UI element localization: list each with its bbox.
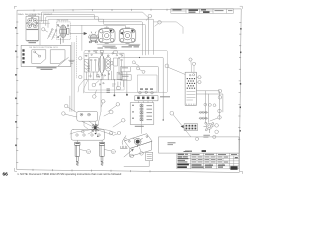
solenoid coil SOL1: [99, 53, 108, 80]
terminal circles right of coil: [114, 57, 123, 80]
wire tag 41 with leader to title area: [170, 111, 191, 137]
wire tag 55: [113, 119, 125, 128]
module tag A: [197, 76, 202, 79]
title block logo text: [177, 154, 189, 168]
wire tag 32: [93, 90, 97, 98]
V1 tag with label: [80, 150, 91, 154]
bus wire W1: [41, 12, 148, 54]
V2 tag with label: [105, 150, 116, 154]
battery B1 body: [26, 15, 38, 40]
wire switch drop left pair 2: [70, 42, 74, 111]
drop wire right of harness: [126, 72, 128, 94]
connector block CB2 dark: [184, 124, 197, 131]
control module U1 body: [185, 72, 196, 105]
module tags bottom right of body: [204, 103, 216, 106]
lamp bar LB2 lower: [71, 129, 104, 140]
fuse F2 inline: [52, 30, 57, 40]
solenoid valve V1: [75, 142, 80, 165]
harness bus horizontal: [84, 79, 127, 81]
electrical box EB outline: [21, 45, 71, 66]
drop wire mid: [113, 80, 115, 96]
zone letters right border: [239, 28, 241, 132]
arrow to connector block: [181, 125, 184, 128]
wire tag 40 with long leader: [165, 64, 185, 75]
harness top labels F row: [122, 46, 140, 47]
electrical box terminal blocks: [22, 49, 24, 63]
harness box H1 outer: [84, 51, 168, 93]
panel bolt 2: [146, 136, 148, 138]
wire tag 54: [104, 110, 113, 116]
wire connector down: [124, 161, 149, 167]
connector box CB1: [146, 152, 153, 160]
tag right 71: [210, 116, 221, 121]
splice X junction: [92, 124, 99, 131]
title block cell texts: [192, 154, 238, 163]
relay module RM1: [89, 58, 98, 72]
wire tag 31: [92, 81, 99, 87]
fan wires from connector: [70, 112, 116, 135]
wires battery to switch: [39, 21, 50, 24]
harness inner box: [89, 53, 125, 90]
lamp connector LC1: [77, 111, 98, 121]
wire tag 20: [146, 14, 151, 20]
clutch caption line: [97, 43, 140, 45]
wire battery to bus vertical: [39, 16, 41, 45]
zone ticks left border: [16, 22, 18, 162]
notes box small label: [184, 151, 190, 152]
control module pin grid: [187, 78, 195, 89]
wire tag 53: [108, 103, 120, 112]
end dot x163: [163, 119, 164, 120]
notes box dark label: [202, 150, 206, 152]
bus wire W3: [46, 17, 143, 55]
drop wire to lamp cluster: [100, 80, 102, 112]
module drop wires: [206, 91, 209, 123]
title block bottom row dark: [192, 164, 226, 167]
notes box text: [168, 142, 176, 145]
wire tag 21: [155, 21, 162, 27]
battery B1 label: [29, 42, 37, 43]
zone ticks bottom border: [33, 169, 150, 172]
pump caption text: [203, 135, 210, 138]
spring clip SP1: [120, 136, 127, 149]
tag bottom 75: [195, 137, 198, 140]
connector box pins: [140, 88, 153, 90]
module top tag circles: [189, 58, 196, 72]
fuse panel caption: [135, 126, 144, 127]
control module lower rows: [187, 92, 196, 106]
tag right 70: [218, 109, 222, 113]
fan wires harness lower-left: [78, 80, 88, 93]
solenoid valve V2: [100, 142, 105, 165]
fuse panel FP1: [130, 103, 153, 125]
revision table strip top-right: [171, 9, 234, 14]
ignition knob on panel: [133, 138, 143, 147]
panel bolt 1: [128, 140, 130, 142]
harness labels top: [98, 48, 118, 49]
harness micro detail marks: [85, 50, 124, 89]
junction dot right run: [139, 57, 140, 58]
junction square mid: [114, 95, 116, 97]
wire tag 56: [109, 132, 112, 135]
wire tag 50: [64, 104, 76, 112]
ring tag on wire lower: [218, 96, 222, 100]
bus wire W2: [44, 14, 154, 54]
module tag B: [197, 81, 202, 84]
key switch S1 dashed enclosure: [57, 22, 70, 40]
fuse block FB1 hatched: [106, 55, 111, 71]
battery B1 hatch bands: [27, 30, 38, 41]
electrical box caption: [37, 67, 57, 70]
starter motor M1: [88, 32, 98, 43]
zone letters left border: [15, 27, 16, 146]
ground G1: [58, 57, 74, 66]
fuse holder box F3: [117, 72, 122, 79]
panel tag 61: [140, 148, 144, 156]
wire tag 30: [79, 57, 82, 60]
bus stub right: [154, 22, 183, 34]
bus wire W4: [48, 19, 145, 55]
solenoid valve V1 stem: [76, 140, 78, 142]
module wire right upper: [197, 91, 220, 120]
wire tag 33: [79, 75, 82, 78]
vertical wire x163 lower: [162, 92, 164, 120]
inline connector triple 1: [199, 111, 208, 113]
arrow to starter: [70, 32, 87, 35]
clutch CL2: [119, 28, 136, 43]
solenoid valve V2 stem: [101, 140, 103, 142]
wire tag 11: [42, 28, 48, 32]
terminal strip TS1: [135, 91, 158, 101]
wire right run lower: [131, 67, 158, 93]
panel leader arrow: [124, 149, 133, 157]
wires strip to panel: [138, 101, 152, 103]
bus wire W5 to clutches: [70, 25, 125, 27]
relay boxes left column: [121, 66, 131, 80]
wire switch drop left pair: [71, 42, 73, 111]
ring tag on wire upper: [218, 89, 222, 93]
svg-text:P/N 103-5221: P/N 103-5221: [57, 20, 69, 22]
panel tag 60: [130, 154, 134, 158]
wire tag 51: [62, 112, 77, 117]
fuel pump FP2: [204, 122, 214, 133]
corner trim marks: [14, 6, 242, 174]
connector box lower right of harness: [138, 75, 158, 92]
battery B1 terminals: [27, 17, 38, 27]
border frame: [17, 9, 241, 173]
revision strip text marks: [173, 9, 233, 13]
tag right 73: [215, 130, 219, 134]
title block number cell dark: [230, 166, 237, 170]
svg-text:66: 66: [3, 171, 9, 177]
relay K1 outline: [32, 50, 46, 64]
relay K2 outline: [50, 50, 65, 64]
tag bottom 74: [213, 135, 216, 138]
small tags above cylinders: [82, 129, 94, 133]
console panel P1 top face: [124, 134, 152, 157]
zone ticks top border: [34, 9, 167, 11]
inline connector triple 2: [199, 117, 208, 119]
dashed drop wire from switch: [76, 36, 78, 78]
clutch CL1: [98, 28, 115, 43]
fuse panel text rows: [147, 105, 153, 120]
tiny label column: [107, 89, 110, 94]
wire right run upper: [120, 58, 163, 92]
drop wire x82: [81, 25, 83, 50]
svg-text:1. NOTE: Document TM40 2012-05: 1. NOTE: Document TM40 2012-05 SM operat…: [17, 172, 122, 176]
junction square right: [126, 94, 128, 96]
title block rev cell: [235, 157, 238, 159]
zone ticks right border: [238, 23, 241, 140]
title block outline: [177, 153, 239, 169]
key switch S1 face: [57, 24, 69, 44]
wire tag 57: [113, 131, 121, 135]
junction dots on harness bus: [100, 79, 121, 80]
tag right 72: [212, 124, 218, 128]
module wire right lower: [197, 94, 223, 112]
terminal strip label: [160, 96, 170, 97]
notes box NB: [159, 137, 239, 153]
fuse F1 inline: [48, 29, 54, 39]
mid harness tag circles: [132, 61, 145, 74]
clutch caption text: [103, 45, 140, 48]
wire tag 52: [101, 100, 105, 108]
wire panel down: [141, 125, 143, 134]
svg-text:SE DECK ELECTRICAL BOX: SE DECK ELECTRICAL BOX: [29, 46, 58, 49]
diode pack D1 hatched: [85, 60, 89, 73]
